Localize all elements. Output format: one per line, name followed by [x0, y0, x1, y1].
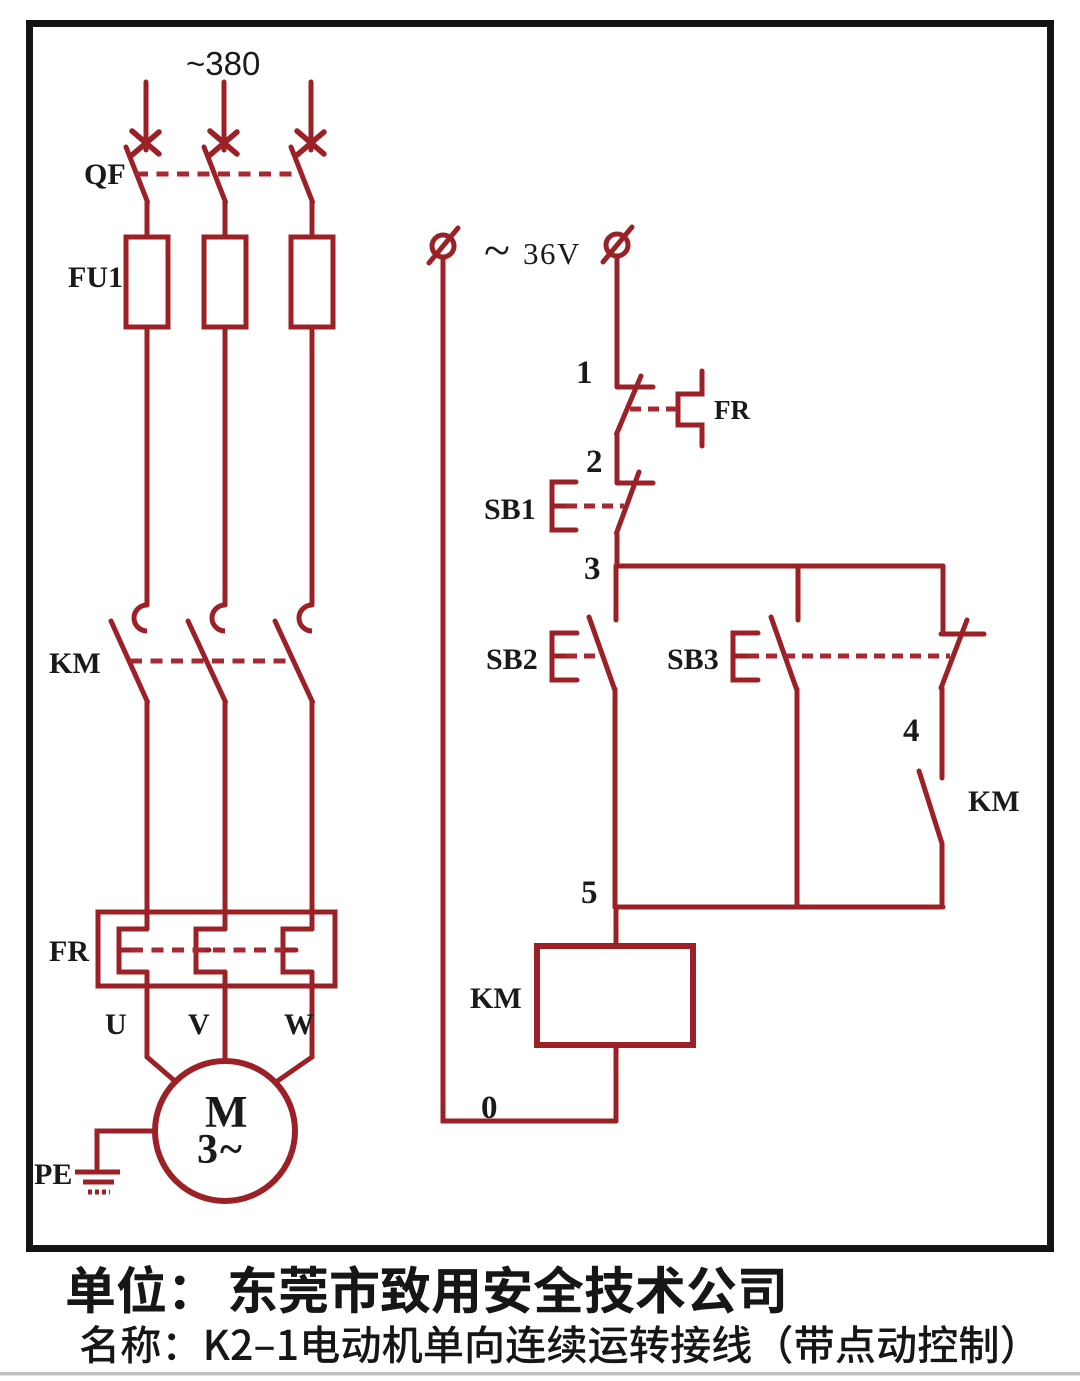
svg-text:4: 4 — [903, 713, 920, 749]
svg-text:5: 5 — [581, 875, 598, 911]
svg-text:36V: 36V — [523, 236, 581, 271]
svg-text:SB3: SB3 — [667, 643, 719, 676]
svg-text:~: ~ — [484, 224, 510, 277]
svg-text:V: V — [188, 1008, 210, 1041]
svg-text:KM: KM — [968, 785, 1020, 818]
svg-text:PE: PE — [34, 1158, 72, 1191]
svg-text:W: W — [284, 1008, 314, 1041]
svg-text:SB2: SB2 — [486, 643, 538, 676]
svg-text:1: 1 — [576, 355, 593, 391]
svg-text:FR: FR — [714, 395, 750, 425]
svg-text:U: U — [105, 1008, 127, 1041]
svg-text:0: 0 — [481, 1090, 498, 1126]
svg-text:~380: ~380 — [186, 45, 260, 82]
svg-text:FU1: FU1 — [68, 261, 123, 294]
svg-text:FR: FR — [49, 935, 89, 968]
svg-text:3: 3 — [584, 551, 601, 587]
svg-text:KM: KM — [470, 982, 522, 1015]
svg-text:QF: QF — [84, 158, 126, 191]
svg-text:2: 2 — [586, 444, 603, 480]
svg-text:SB1: SB1 — [484, 493, 536, 526]
svg-text:3~: 3~ — [197, 1127, 244, 1173]
svg-text:KM: KM — [49, 647, 101, 680]
